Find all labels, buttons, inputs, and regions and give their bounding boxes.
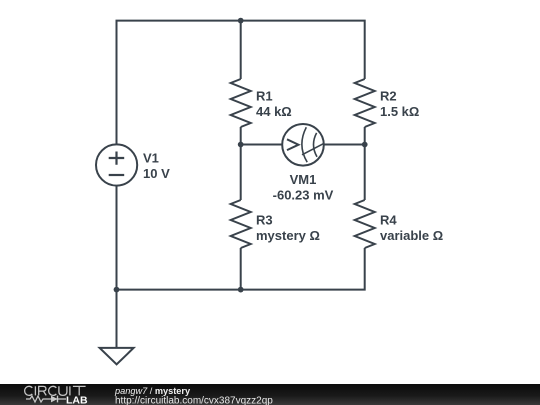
voltage source V1 minus mark — [109, 174, 125, 176]
wire: voltmeter right terminal to node B — [324, 144, 365, 146]
svg-text:-60.23 mV: -60.23 mV — [273, 188, 334, 203]
voltage source V1 body — [96, 144, 137, 185]
voltmeter VM1 polarity mark — [287, 139, 299, 150]
wire: R2 bottom lead to node B — [364, 127, 366, 145]
resistor R2 — [355, 79, 375, 127]
wire: middle rail top segment (top rail to R1) — [240, 21, 242, 79]
junction dot bottom rail / ground — [114, 287, 120, 293]
CircuitLab logo circuit line (resistor + diode) — [26, 396, 66, 402]
voltage source V1 plus mark — [109, 152, 125, 165]
svg-text:44 kΩ: 44 kΩ — [256, 104, 292, 119]
resistor R1 — [231, 79, 251, 127]
voltmeter VM1 meter glyph — [302, 127, 324, 162]
CircuitLab logo wordmark — [25, 386, 86, 395]
svg-text:variable Ω: variable Ω — [380, 228, 443, 243]
wire: top rail from V1 top over R1 to R2 — [117, 21, 365, 145]
wire: R4 bottom lead and bottom rail to ground node — [117, 248, 365, 290]
resistor R4 — [355, 200, 375, 248]
svg-text:mystery Ω: mystery Ω — [256, 228, 320, 243]
svg-text:http://circuitlab.com/cvx387vq: http://circuitlab.com/cvx387vqzz2qp — [115, 395, 273, 405]
svg-text:R4: R4 — [380, 212, 397, 227]
wire: R3 bottom lead to bottom rail — [240, 248, 242, 290]
footer bar — [0, 384, 540, 405]
svg-text:R2: R2 — [380, 89, 397, 104]
svg-text:10 V: 10 V — [143, 166, 170, 181]
voltmeter VM1 body — [282, 124, 324, 166]
wire: node A down to R3 — [240, 145, 242, 201]
wire: node B down to R4 — [364, 145, 366, 201]
svg-text:R1: R1 — [256, 89, 273, 104]
node B junction dot — [362, 142, 368, 148]
svg-text:VM1: VM1 — [290, 172, 317, 187]
wire: V1 bottom to ground stem — [116, 186, 118, 348]
node junction dot top rail / R1 — [238, 18, 244, 24]
node A junction dot — [238, 142, 244, 148]
wire: node A to voltmeter left terminal — [241, 144, 283, 146]
wire: R1 bottom lead to node A — [240, 127, 242, 145]
svg-text:LAB: LAB — [66, 395, 88, 405]
svg-text:R3: R3 — [256, 212, 273, 227]
junction dot bottom rail / R3 — [238, 287, 244, 293]
ground — [100, 348, 134, 365]
svg-text:V1: V1 — [143, 150, 159, 165]
resistor R3 — [231, 200, 251, 248]
svg-text:1.5 kΩ: 1.5 kΩ — [380, 104, 419, 119]
